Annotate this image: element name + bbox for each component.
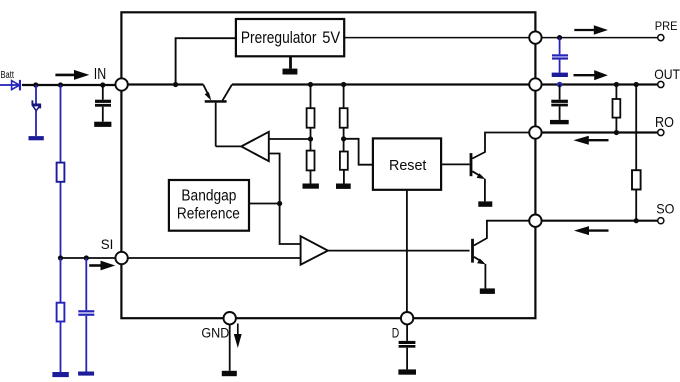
svg-text:SI: SI: [101, 237, 114, 252]
wire: GND pin to ground: [229, 325, 231, 371]
ground (blue) for Z1: [29, 136, 44, 140]
capacitor C2 (blue, on PRE): [552, 38, 568, 77]
resistor R8 (blue, divider upper): [57, 163, 65, 182]
Q3 collector: [474, 221, 529, 246]
arrow: into RO: [573, 136, 608, 145]
node: RO junction with R5: [614, 130, 619, 135]
Q2 emitter ground: [478, 201, 492, 206]
svg-text:Bandgap: Bandgap: [181, 188, 236, 205]
transistor Q3 (NPN, sense output driver): [471, 221, 529, 294]
wire: opamp U2 - input from bandgap line: [269, 154, 280, 204]
Q1 base lead down to opamp output: [215, 103, 217, 147]
Bandgap Reference box: [169, 180, 249, 231]
node: junction of blue sense rail: [58, 82, 63, 87]
arrow: into IN: [55, 70, 89, 80]
node: SI junction on blue rail: [58, 255, 63, 260]
wire: diode to IN pin: [22, 84, 116, 86]
capacitor C5 (on D): [398, 341, 416, 375]
arrow: out of OUT: [574, 70, 608, 80]
node: junction for input cap C4: [100, 82, 105, 87]
comparator U3 (points right): [301, 236, 328, 265]
node: junction for C1 sense cap: [84, 255, 89, 260]
node: OUT junction for R6: [634, 82, 639, 87]
Q1 emitter diagonal with arrow: [203, 85, 209, 98]
ground for C5: [398, 369, 416, 374]
wire: blue rail down to SI level: [60, 85, 62, 258]
arrow: into SI: [89, 261, 115, 271]
Q1 base bar: [205, 100, 227, 103]
svg-text:Reset: Reset: [389, 157, 427, 174]
wire: IN rail from pass transistor to OUT pin: [232, 83, 529, 85]
wire: Preregulator output to PRE pin: [344, 37, 529, 39]
Q2 base bar: [470, 153, 473, 176]
Q3 base bar: [471, 239, 474, 263]
terminal OUT: [658, 81, 664, 87]
node: PRE cap junction: [557, 35, 562, 40]
terminal RO: [658, 129, 664, 135]
transistor Q2 (NPN, reset output driver): [470, 133, 530, 207]
wire: SO pin to terminal: [542, 220, 658, 222]
pin SI: [115, 252, 127, 264]
Q3 emitter with arrow: [474, 257, 483, 262]
wire: opamp U2 output to Q1 base: [216, 145, 242, 147]
Preregulator 5V box U1: [236, 19, 344, 56]
diode D1 (blue, Batt series): [11, 80, 21, 91]
op-amp U2 (error amplifier, points left): [241, 132, 268, 161]
resistor chain 2: lower resistor: [343, 128, 345, 152]
svg-text:OUT: OUT: [654, 66, 680, 82]
IC boundary box: [121, 12, 535, 318]
pin GND: [224, 312, 236, 324]
wire: SI input to comparator U3: [128, 257, 301, 259]
terminal PRE: [658, 35, 664, 41]
wire: OUT pin to terminal: [542, 83, 658, 85]
ground under preregulator: [289, 56, 292, 68]
node: OUT cap junction (blue dot): [557, 82, 563, 88]
wire: bandgap line down to comparator U3 + input: [280, 204, 301, 245]
wire: battery input (blue): [0, 84, 11, 86]
node: zener junction: [33, 82, 38, 87]
wire: Reset output to Q2 base: [441, 163, 470, 165]
wire: up from rail to Preregulator input: [176, 38, 236, 84]
svg-text:D: D: [392, 326, 400, 341]
wire: bandgap output: [249, 203, 280, 205]
ground for C3: [550, 120, 569, 124]
svg-text:PRE: PRE: [655, 20, 678, 33]
capacitor C1 (blue, on SI): [78, 258, 94, 376]
transistor Q1 (PNP pass transistor): [203, 85, 232, 147]
svg-text:GND: GND: [201, 326, 229, 341]
svg-text:IN: IN: [94, 66, 106, 83]
svg-text:RO: RO: [655, 115, 674, 131]
resistor R6 (pull-up SO): [632, 85, 641, 221]
wire: RO pin to terminal: [542, 131, 658, 133]
resistor chain 1: lower resistor: [310, 128, 312, 151]
node: OUT junction for R5: [614, 82, 619, 87]
resistor chain 1: upper resistor: [310, 85, 312, 109]
svg-text:Preregulator: Preregulator: [241, 28, 317, 47]
arrow: into SO: [574, 226, 609, 235]
wire: SI wire to SI pin: [61, 257, 116, 259]
node: bandgap junction: [277, 201, 282, 206]
pin PRE: [529, 31, 541, 43]
capacitor C3 (on OUT): [550, 85, 569, 125]
wire: comparator U3 output to Q3 base: [328, 250, 470, 252]
ground chain 1: [310, 170, 312, 183]
ground for GND pin: [222, 371, 237, 376]
pin SO: [529, 215, 541, 227]
ground chain 2: [343, 170, 345, 184]
node: junction to preregulator: [173, 82, 178, 87]
Q2 emitter with arrow: [472, 171, 482, 177]
pin OUT: [529, 78, 541, 90]
wire: chain2 tap to Reset input: [344, 139, 373, 165]
wire: PRE pin to terminal: [542, 37, 658, 39]
ground (blue) for R7: [52, 372, 68, 377]
svg-text:SO: SO: [656, 201, 674, 217]
ground for C4: [94, 122, 111, 127]
ground (blue) for C1: [78, 372, 94, 376]
resistor chain 2: upper resistor: [343, 85, 345, 109]
Q1 collector diagonal: [223, 85, 233, 101]
svg-text:5V: 5V: [322, 28, 341, 47]
svg-text:Reference: Reference: [177, 205, 240, 222]
pin D: [401, 312, 413, 324]
resistor R5 (pull-up RO): [613, 85, 621, 133]
pin RO: [529, 126, 541, 138]
Q3 emitter ground: [480, 288, 495, 294]
zener diode Z1 (blue): [29, 85, 44, 140]
wire: Reset box down to D pin: [406, 190, 408, 312]
pin IN: [115, 78, 127, 90]
Reset box: [373, 138, 441, 189]
wire: D pin to capacitor C5: [406, 325, 408, 341]
ground (blue) for C2: [552, 73, 568, 77]
terminal SO: [658, 218, 664, 224]
resistor R7 (blue, divider lower): [52, 258, 68, 377]
wire: IN rail from IN pin to pass transistor: [128, 83, 203, 85]
node: SO junction with R6: [634, 218, 639, 223]
capacitor C4 (on IN): [94, 85, 111, 127]
arrow: GND current direction (down): [234, 324, 242, 349]
svg-text:Batt: Batt: [1, 70, 15, 81]
arrow: out of PRE: [574, 25, 608, 35]
wire: chain1 tap to opamp U2 + input: [269, 138, 311, 140]
Q2 collector: [472, 133, 529, 159]
